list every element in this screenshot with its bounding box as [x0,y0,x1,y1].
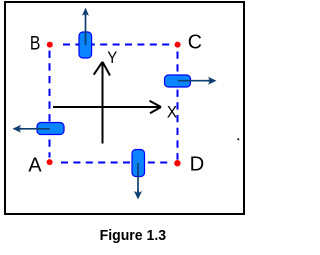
svg-text:Y: Y [107,49,117,67]
arrow bottom wheel (down) [134,163,142,200]
svg-text:X: X [167,104,177,122]
svg-text:B: B [30,33,41,55]
Y axis [94,62,110,144]
svg-text:D: D [190,153,205,175]
frame border [5,2,244,214]
wire left side dashed (B to A) [49,51,51,158]
node C dot [175,42,181,48]
wire top side dashed (B to C) [63,44,174,46]
node B dot [47,42,53,48]
svg-text:Figure 1.3: Figure 1.3 [100,227,167,244]
svg-text:C: C [188,31,202,54]
arrow right wheel (right) [178,77,217,85]
arrow top wheel (up) [82,8,89,45]
wheel right [165,75,191,87]
stray mark dot [237,138,239,140]
svg-text:A: A [28,154,42,176]
wire right side dashed (C to D) [177,52,179,160]
X axis [53,101,161,114]
wheel left [37,123,64,135]
node A dot [47,159,53,165]
wire bottom side dashed (A to D) [61,162,172,164]
node D dot [174,160,180,166]
arrow left wheel (left) [13,125,51,133]
wheel top [79,32,92,58]
wheel bottom [132,150,145,177]
